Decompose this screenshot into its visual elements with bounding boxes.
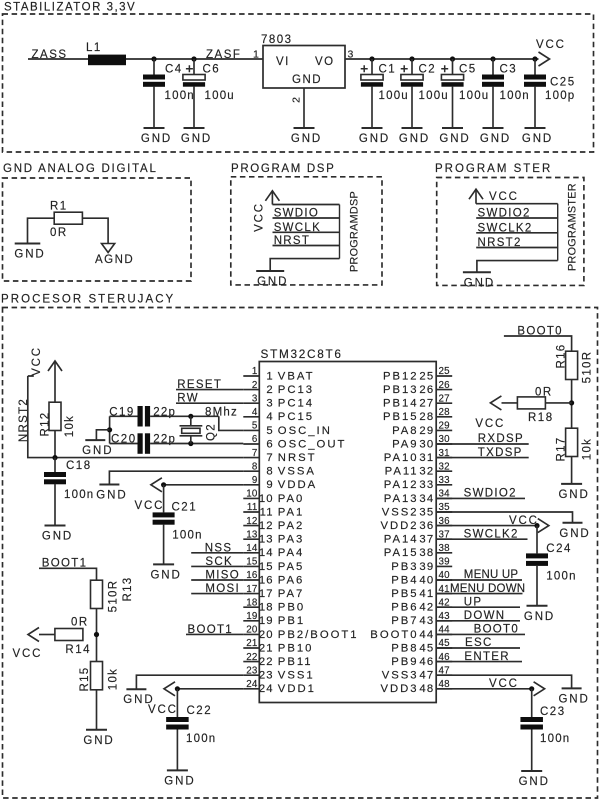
node junction xyxy=(532,56,537,61)
ground xyxy=(123,689,154,706)
svg-text:PB14: PB14 xyxy=(383,398,419,410)
svg-text:28: 28 xyxy=(439,407,451,418)
pin 6 stub xyxy=(243,443,259,445)
svg-text:PA7: PA7 xyxy=(278,588,305,600)
svg-text:PB10: PB10 xyxy=(278,642,314,654)
svg-text:22: 22 xyxy=(246,652,257,663)
resistor R12 xyxy=(49,402,61,430)
ground xyxy=(291,128,322,145)
svg-text:VBAT: VBAT xyxy=(278,370,315,382)
wire VCC output rail xyxy=(345,58,538,60)
pin 27 stub xyxy=(436,402,452,404)
svg-text:100n: 100n xyxy=(540,733,570,745)
svg-text:PB12: PB12 xyxy=(383,370,419,382)
svg-text:10k: 10k xyxy=(582,438,594,460)
wire pin 9 VDDA to VCC xyxy=(164,484,244,486)
svg-text:33: 33 xyxy=(439,475,451,486)
svg-text:GND: GND xyxy=(150,569,181,581)
wire BOOT1 to pin 20 xyxy=(186,633,243,635)
svg-text:Q2: Q2 xyxy=(206,423,218,441)
svg-text:9: 9 xyxy=(266,479,273,491)
svg-text:C21: C21 xyxy=(172,501,198,513)
pin 17 stub xyxy=(243,593,259,595)
resistor R1 xyxy=(54,212,82,224)
svg-text:100n: 100n xyxy=(165,90,195,102)
pin 43 stub xyxy=(436,620,452,622)
svg-text:GND: GND xyxy=(257,276,288,288)
svg-text:R14: R14 xyxy=(65,644,91,656)
wire R15 to ground xyxy=(96,690,98,730)
svg-text:23: 23 xyxy=(246,665,258,676)
svg-text:31: 31 xyxy=(419,452,434,464)
wire ESC pin 45 xyxy=(436,647,520,649)
svg-text:100u: 100u xyxy=(459,90,489,102)
node junction xyxy=(529,686,534,691)
svg-text:VCC: VCC xyxy=(135,500,165,512)
capacitor C18 xyxy=(54,458,56,472)
pin 10 stub xyxy=(243,497,259,499)
svg-text:44: 44 xyxy=(419,629,434,641)
pin 37 stub xyxy=(436,538,452,540)
svg-text:8Mhz: 8Mhz xyxy=(205,406,238,418)
svg-text:12: 12 xyxy=(259,520,274,532)
svg-text:GND: GND xyxy=(292,74,322,86)
svg-text:GND: GND xyxy=(399,133,430,145)
section box PROCESOR STERUJACY xyxy=(3,308,598,799)
wire NSS to pin 14 xyxy=(191,552,243,554)
pin 23 stub xyxy=(243,674,259,676)
svg-text:PB8: PB8 xyxy=(391,642,418,654)
svg-text:18: 18 xyxy=(259,602,274,614)
svg-text:GND: GND xyxy=(359,133,390,145)
svg-text:8: 8 xyxy=(266,466,273,478)
svg-text:GND: GND xyxy=(558,489,589,501)
svg-text:100n: 100n xyxy=(64,489,94,501)
svg-text:PC13: PC13 xyxy=(278,384,314,396)
svg-text:VCC: VCC xyxy=(475,418,505,430)
svg-text:PB7: PB7 xyxy=(391,615,418,627)
svg-text:0R: 0R xyxy=(535,387,553,399)
ground xyxy=(480,128,511,145)
pin 7 stub xyxy=(243,457,259,459)
svg-text:100n: 100n xyxy=(500,90,530,102)
svg-text:16: 16 xyxy=(246,570,258,581)
capacitor C23 xyxy=(531,689,533,717)
ground xyxy=(256,271,288,288)
svg-text:26: 26 xyxy=(439,380,451,391)
node junction xyxy=(188,441,193,446)
pin 22 stub xyxy=(243,661,259,663)
svg-text:STABILIZATOR 3,3V: STABILIZATOR 3,3V xyxy=(4,2,136,14)
svg-text:100p: 100p xyxy=(545,90,575,102)
ground xyxy=(558,688,589,705)
svg-text:OSC_OUT: OSC_OUT xyxy=(278,438,347,450)
svg-text:14: 14 xyxy=(259,547,274,559)
wire SWDIO2 pin 34 xyxy=(436,497,525,499)
pin 26 stub xyxy=(436,389,452,391)
wire R12 to node xyxy=(54,431,56,458)
svg-text:29: 29 xyxy=(439,421,450,432)
svg-text:42: 42 xyxy=(419,602,434,614)
node junction xyxy=(94,632,99,637)
svg-text:11: 11 xyxy=(260,506,274,518)
node junction xyxy=(490,56,495,61)
wire pin 47 VSS3 to ground xyxy=(436,675,571,688)
svg-text:510R: 510R xyxy=(582,351,594,384)
svg-text:L1: L1 xyxy=(86,42,102,54)
svg-text:17: 17 xyxy=(259,588,274,600)
pin 12 stub xyxy=(243,525,259,527)
svg-text:GND: GND xyxy=(14,249,45,261)
svg-text:R1: R1 xyxy=(50,201,68,213)
svg-text:PROGRAM STER: PROGRAM STER xyxy=(435,163,552,175)
ground xyxy=(42,526,73,543)
node junction xyxy=(107,427,112,432)
svg-text:VCC: VCC xyxy=(536,39,566,51)
svg-text:GND: GND xyxy=(96,490,127,502)
svg-text:100n: 100n xyxy=(172,529,202,541)
svg-text:10k: 10k xyxy=(64,415,76,437)
wire GND to connector bus xyxy=(477,261,558,273)
node junction xyxy=(534,523,539,528)
resistor R14 xyxy=(55,629,83,641)
svg-text:PB5: PB5 xyxy=(391,588,418,600)
capacitor C5 polarized xyxy=(452,59,454,75)
svg-text:PROCESOR STERUJACY: PROCESOR STERUJACY xyxy=(1,294,175,306)
svg-text:VI: VI xyxy=(276,56,290,68)
pin 29 stub xyxy=(436,429,452,431)
power VCC arrow PROGRAM DSP xyxy=(265,191,279,201)
svg-text:15: 15 xyxy=(246,557,258,568)
capacitor C3 xyxy=(492,59,494,75)
svg-text:VO: VO xyxy=(315,56,335,68)
pin 41 stub xyxy=(436,593,452,595)
pin 35 stub xyxy=(436,511,452,513)
resistor R16 xyxy=(566,351,578,379)
svg-text:19: 19 xyxy=(246,611,257,622)
MCU U2 STM32C8T6 body xyxy=(259,362,436,703)
pin 15 stub xyxy=(243,565,259,567)
connector bus PROGRAMSTER xyxy=(557,204,559,261)
svg-text:AGND: AGND xyxy=(95,254,134,266)
wire SWDIO2 xyxy=(476,217,558,219)
wire BOOT0 net to R16 xyxy=(504,336,572,351)
svg-text:38: 38 xyxy=(419,547,434,559)
svg-text:GND: GND xyxy=(522,133,553,145)
svg-text:41: 41 xyxy=(419,588,434,600)
svg-text:25: 25 xyxy=(439,366,451,377)
wire NRST xyxy=(273,245,340,247)
ground xyxy=(83,730,114,747)
regulator U1 7803 xyxy=(263,46,345,89)
svg-text:27: 27 xyxy=(439,393,450,404)
resistor R17 xyxy=(566,428,578,456)
wire pin 8 VSSA to ground xyxy=(109,471,243,484)
pin 14 stub xyxy=(243,552,259,554)
wire VCC to connector bus xyxy=(476,203,558,205)
svg-text:C3: C3 xyxy=(500,63,518,75)
svg-text:PA15: PA15 xyxy=(384,547,419,559)
capacitor C19 xyxy=(110,415,138,417)
svg-text:18: 18 xyxy=(246,597,258,608)
ground xyxy=(164,770,195,787)
connector bus PROGRAMDSP xyxy=(339,205,341,259)
svg-text:6: 6 xyxy=(252,434,258,445)
pin 45 stub xyxy=(436,647,452,649)
pin 19 stub xyxy=(243,620,259,622)
svg-text:GND ANALOG DIGITAL: GND ANALOG DIGITAL xyxy=(3,163,158,175)
pin 3 stub xyxy=(243,402,259,404)
section box PROGRAM DSP xyxy=(231,177,382,285)
svg-text:11: 11 xyxy=(247,502,258,513)
svg-text:15: 15 xyxy=(259,561,274,573)
wire SWCLK xyxy=(273,231,340,233)
svg-text:29: 29 xyxy=(419,425,434,437)
resistor R13 xyxy=(91,580,103,608)
svg-text:VDDA: VDDA xyxy=(278,479,317,491)
wire C19 to crystal and pin 5 xyxy=(150,416,243,430)
svg-text:26: 26 xyxy=(419,384,434,396)
wire NRST2 xyxy=(476,247,558,249)
capacitor C4 xyxy=(153,59,155,75)
wire pin 35 VSS2 to ground xyxy=(436,512,572,523)
svg-text:38: 38 xyxy=(439,543,451,554)
svg-text:PA3: PA3 xyxy=(278,534,305,546)
pin 34 stub xyxy=(436,497,452,499)
svg-text:ZASF: ZASF xyxy=(206,49,241,61)
svg-text:C4: C4 xyxy=(165,63,183,75)
wire VCC to connector bus xyxy=(272,204,339,206)
svg-text:C5: C5 xyxy=(459,63,477,75)
svg-text:7803: 7803 xyxy=(261,34,293,46)
node junction xyxy=(161,482,166,487)
svg-text:PROGRAM DSP: PROGRAM DSP xyxy=(231,163,335,175)
svg-text:GND: GND xyxy=(181,133,212,145)
svg-text:GND: GND xyxy=(141,133,172,145)
capacitor C20 xyxy=(110,443,138,445)
svg-text:48: 48 xyxy=(419,683,434,695)
svg-text:GND: GND xyxy=(439,133,470,145)
svg-text:24: 24 xyxy=(246,679,258,690)
svg-text:13: 13 xyxy=(246,529,258,540)
pin 13 stub xyxy=(243,538,259,540)
resistor R18 xyxy=(517,397,545,409)
pin 36 stub xyxy=(436,525,452,527)
svg-text:2: 2 xyxy=(291,97,303,103)
svg-text:28: 28 xyxy=(419,411,434,423)
capacitor C22 xyxy=(176,689,178,717)
svg-text:PB1: PB1 xyxy=(278,615,305,627)
ground xyxy=(399,128,430,145)
wire MENU DOWN pin 41 xyxy=(436,593,522,595)
inductor L1 xyxy=(88,55,126,66)
wire R14 to VCC arrow xyxy=(39,634,55,636)
pin 48 stub xyxy=(436,688,452,690)
svg-text:PROGRAMSTER: PROGRAMSTER xyxy=(567,183,579,271)
crystal Q2 xyxy=(180,416,203,443)
svg-text:C19: C19 xyxy=(109,406,135,418)
capacitor C24 xyxy=(536,526,538,554)
wire 7803 ground pin xyxy=(303,88,305,128)
capacitor C21 xyxy=(163,485,165,513)
wire R16 to node xyxy=(571,380,573,429)
svg-text:10: 10 xyxy=(259,493,274,505)
svg-text:VCC: VCC xyxy=(489,191,519,203)
svg-text:PB4: PB4 xyxy=(391,574,418,586)
pin 2 stub xyxy=(243,389,259,391)
svg-text:10k: 10k xyxy=(108,668,120,690)
svg-text:4: 4 xyxy=(266,411,273,423)
svg-text:1: 1 xyxy=(253,49,259,61)
wire ENTER pin 46 xyxy=(436,661,522,663)
wire R1 right to AGND xyxy=(82,218,108,243)
svg-text:PA9: PA9 xyxy=(392,438,419,450)
svg-text:C25: C25 xyxy=(550,77,576,89)
svg-text:VDD2: VDD2 xyxy=(380,520,418,532)
wire SCK to pin 15 xyxy=(191,565,243,567)
power VCC arrow xyxy=(539,52,550,66)
svg-text:R17: R17 xyxy=(556,437,568,462)
wire BOOT1 net xyxy=(39,568,97,580)
power VCC arrow above R12 xyxy=(48,361,62,371)
section box PROGRAM STER xyxy=(437,178,584,286)
svg-text:16: 16 xyxy=(259,574,274,586)
pin 38 stub xyxy=(436,552,452,554)
svg-text:43: 43 xyxy=(419,615,434,627)
svg-text:100u: 100u xyxy=(379,90,409,102)
wire R18 to VCC arrow xyxy=(502,402,572,404)
pin 1 stub xyxy=(243,375,259,377)
svg-text:6: 6 xyxy=(266,438,273,450)
svg-text:VDD1: VDD1 xyxy=(278,683,316,695)
wire TXDSP pin 31 xyxy=(436,457,529,459)
node junction xyxy=(151,56,156,61)
svg-text:100u: 100u xyxy=(419,90,449,102)
wire RESET to pin 2 xyxy=(176,389,243,391)
section box GND ANALOG DIGITAL xyxy=(3,178,192,281)
svg-text:C24: C24 xyxy=(546,543,572,555)
pin 46 stub xyxy=(436,661,452,663)
wire MENU UP pin 40 xyxy=(436,579,522,581)
wire SWCLK2 pin 37 xyxy=(436,538,527,540)
pin 11 stub xyxy=(243,511,259,513)
svg-text:25: 25 xyxy=(419,370,434,382)
svg-text:1: 1 xyxy=(252,366,258,377)
svg-text:PB3: PB3 xyxy=(391,561,418,573)
svg-text:GND: GND xyxy=(82,445,113,457)
svg-text:PB2/BOOT1: PB2/BOOT1 xyxy=(278,629,359,641)
svg-text:PROGRAMDSP: PROGRAMDSP xyxy=(349,191,361,272)
svg-text:R12: R12 xyxy=(40,412,52,437)
svg-text:47: 47 xyxy=(419,670,434,682)
ground xyxy=(463,272,495,289)
svg-text:PA6: PA6 xyxy=(278,574,305,586)
svg-text:PA8: PA8 xyxy=(392,425,419,437)
pin 18 stub xyxy=(243,606,259,608)
svg-text:PA4: PA4 xyxy=(278,547,305,559)
node junction xyxy=(450,56,455,61)
svg-text:36: 36 xyxy=(419,520,434,532)
pin 4 stub xyxy=(243,416,259,418)
svg-text:VCC: VCC xyxy=(148,704,178,716)
svg-text:2: 2 xyxy=(266,384,273,396)
svg-text:5: 5 xyxy=(266,425,273,437)
wire SWCLK2 xyxy=(476,232,558,234)
svg-text:GND: GND xyxy=(164,775,195,787)
wire ZASS input xyxy=(28,58,263,60)
svg-text:VSSA: VSSA xyxy=(278,466,316,478)
svg-text:32: 32 xyxy=(439,461,450,472)
svg-text:VCC: VCC xyxy=(489,678,519,690)
svg-text:0R: 0R xyxy=(50,227,68,239)
svg-text:10: 10 xyxy=(246,489,258,500)
svg-text:24: 24 xyxy=(259,683,274,695)
svg-text:7: 7 xyxy=(252,448,258,459)
svg-text:PB9: PB9 xyxy=(391,656,418,668)
ground xyxy=(181,128,212,145)
svg-text:C1: C1 xyxy=(379,63,397,75)
ground xyxy=(524,606,555,623)
svg-text:R13: R13 xyxy=(122,577,134,602)
node junction xyxy=(569,400,574,405)
svg-text:GND: GND xyxy=(42,531,73,543)
svg-text:39: 39 xyxy=(439,557,450,568)
svg-text:GND: GND xyxy=(519,776,550,788)
svg-text:21: 21 xyxy=(259,642,274,654)
ground xyxy=(96,485,127,502)
svg-text:2: 2 xyxy=(252,380,258,391)
svg-text:C23: C23 xyxy=(540,706,566,718)
node junction xyxy=(188,414,193,419)
wire pin 36 VDD2 to VCC xyxy=(436,525,537,527)
svg-text:45: 45 xyxy=(419,642,434,654)
svg-text:37: 37 xyxy=(419,534,434,546)
svg-text:33: 33 xyxy=(419,479,434,491)
pin 5 stub xyxy=(243,429,259,431)
pin 16 stub xyxy=(243,579,259,581)
ground xyxy=(359,128,390,145)
pin 21 stub xyxy=(243,647,259,649)
svg-text:9: 9 xyxy=(252,475,258,486)
svg-text:17: 17 xyxy=(246,584,257,595)
svg-text:PA12: PA12 xyxy=(384,479,419,491)
svg-text:R16: R16 xyxy=(556,344,568,369)
svg-text:1: 1 xyxy=(266,370,273,382)
svg-text:7: 7 xyxy=(266,452,273,464)
capacitor C6 polarized xyxy=(193,59,195,75)
svg-text:R15: R15 xyxy=(79,667,91,692)
svg-text:VCC: VCC xyxy=(254,202,266,232)
svg-text:4: 4 xyxy=(252,407,258,418)
svg-text:35: 35 xyxy=(419,506,434,518)
resistor R15 xyxy=(91,662,103,690)
pin 39 stub xyxy=(436,565,452,567)
svg-text:3: 3 xyxy=(252,393,258,404)
svg-text:PA13: PA13 xyxy=(384,493,419,505)
svg-text:C2: C2 xyxy=(419,63,437,75)
wire RW to pin 3 xyxy=(176,402,243,404)
pin 24 stub xyxy=(243,688,259,690)
wire BOOT0 pin 44 xyxy=(436,633,525,635)
svg-text:23: 23 xyxy=(259,670,274,682)
svg-text:510R: 510R xyxy=(108,580,120,613)
ground xyxy=(558,484,589,501)
pin 33 stub xyxy=(436,484,452,486)
svg-text:R18: R18 xyxy=(528,412,554,424)
svg-text:PA11: PA11 xyxy=(385,466,419,478)
node junction xyxy=(52,455,57,460)
pin 47 stub xyxy=(436,674,452,676)
